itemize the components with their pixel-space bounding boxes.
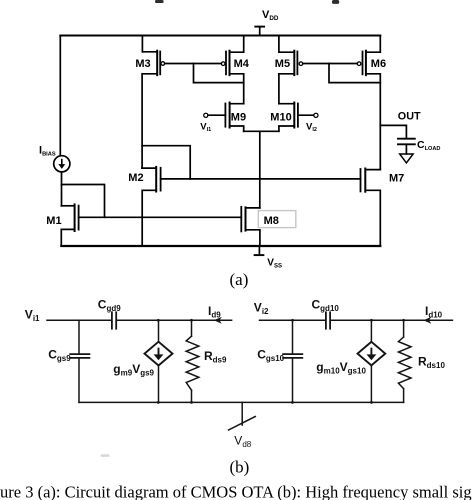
svg-text:M8: M8 xyxy=(264,215,279,227)
svg-text:M5: M5 xyxy=(275,58,290,70)
svg-text:M3: M3 xyxy=(135,58,150,70)
svg-text:M10: M10 xyxy=(270,112,291,124)
svg-text:M1: M1 xyxy=(46,215,61,227)
svg-text:OUT: OUT xyxy=(398,111,421,123)
svg-text:M2: M2 xyxy=(128,172,143,184)
svg-text:ure 3 (a): Circuit diagram of: ure 3 (a): Circuit diagram of CMOS OTA (… xyxy=(0,483,472,500)
svg-text:(a): (a) xyxy=(230,270,249,289)
svg-text:(b): (b) xyxy=(230,457,250,476)
svg-text:M7: M7 xyxy=(389,172,404,184)
svg-text:M9: M9 xyxy=(231,112,246,124)
svg-text:M6: M6 xyxy=(371,58,386,70)
svg-text:M4: M4 xyxy=(234,58,250,70)
